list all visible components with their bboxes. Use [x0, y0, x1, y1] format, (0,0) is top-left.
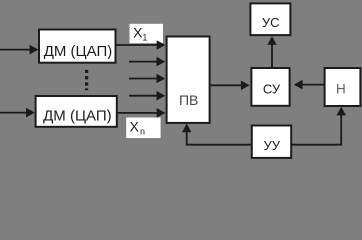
- svg-text:УУ: УУ: [264, 138, 281, 153]
- svg-text:УС: УС: [262, 15, 280, 30]
- label Xn (white tag): [126, 118, 160, 139]
- block DM1 "ДМ (ЦАП)" (top DAC demodulator): [39, 30, 116, 63]
- wire input B to DM2: [0, 108, 35, 118]
- svg-text:ПВ: ПВ: [179, 92, 198, 108]
- wire E: DM2 to PV (signal Xn): [117, 108, 165, 118]
- wire input A to DM1: [0, 45, 38, 55]
- wire F: PV to SU: [211, 81, 250, 91]
- vertical ellipsis between DM1 and DM2: [85, 70, 88, 90]
- wire D2: middle channel arrow into PV: [129, 74, 165, 84]
- wire D3: middle channel arrow into PV: [129, 91, 165, 101]
- svg-text:X: X: [130, 119, 140, 135]
- svg-text:ДМ (ЦАП): ДМ (ЦАП): [44, 43, 113, 60]
- block SU "СУ" (comparison unit): [251, 68, 289, 106]
- wire J: UU right then up into N bottom: [291, 107, 346, 145]
- svg-text:Н: Н: [336, 82, 346, 97]
- label X1 (white tag): [130, 24, 164, 43]
- wire H: SU up to US (arrow points up): [267, 36, 277, 68]
- svg-text:n: n: [140, 127, 145, 137]
- wire C: DM1 to PV (signal X1): [116, 40, 165, 50]
- block PV "ПВ" (selector/switch): [167, 37, 210, 123]
- block DM2 "ДМ (ЦАП)" (bottom DAC demodulator): [36, 96, 117, 127]
- wire G: N to SU (arrow points left): [294, 80, 325, 90]
- block UU "УУ" (control unit, bottom): [252, 126, 291, 158]
- svg-text:СУ: СУ: [263, 81, 281, 96]
- block US "УС" (top right): [250, 3, 290, 35]
- wire I: UU left then up into PV bottom: [182, 124, 252, 145]
- block N "Н" (far right): [325, 68, 361, 106]
- svg-text:1: 1: [142, 33, 147, 43]
- svg-text:ДМ (ЦАП): ДМ (ЦАП): [43, 108, 112, 125]
- wire D1: middle channel arrow into PV: [129, 57, 165, 67]
